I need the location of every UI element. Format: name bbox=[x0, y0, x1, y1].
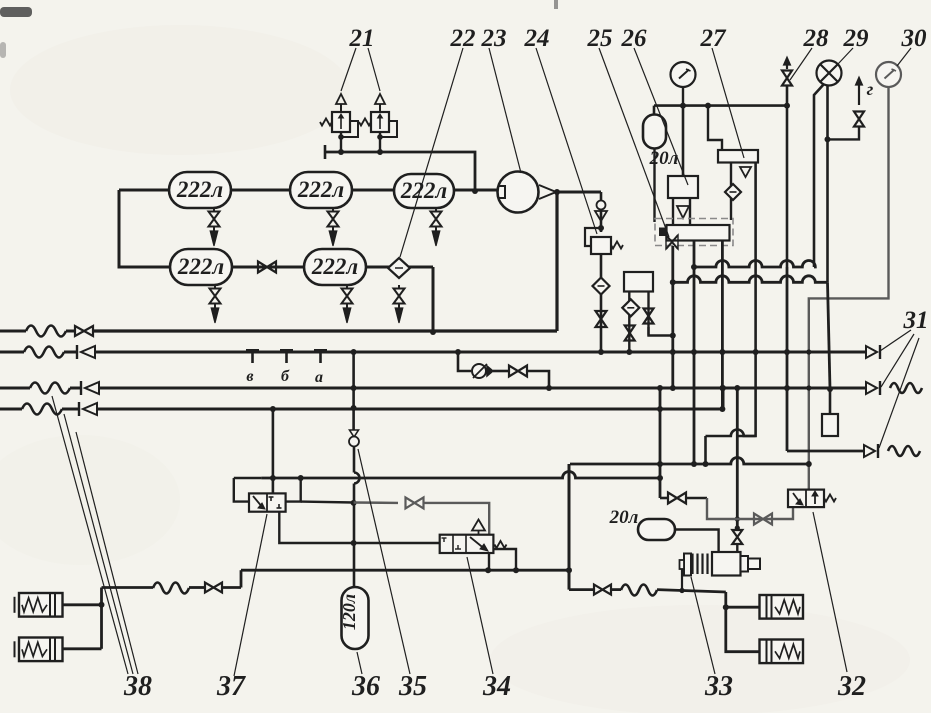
valve under small box right leg x=648 bbox=[647, 292, 649, 336]
pipe riser from check valve to trunk1 x=433 bbox=[432, 267, 435, 332]
reservoir 20l horizontal bbox=[638, 519, 675, 540]
vent g arrow and valve bbox=[828, 126, 860, 139]
relay unit 33 bbox=[712, 552, 741, 576]
pipe gauge header y=105.6 bbox=[654, 104, 787, 107]
trunk line 2 brake main y=352 bbox=[0, 351, 24, 354]
valve between row2 reservoirs bbox=[258, 262, 276, 273]
drain valve under A2 bbox=[332, 208, 334, 212]
pipe gauge29 down x=827.5 bbox=[826, 86, 829, 283]
wire regulator output line y=152 bbox=[325, 152, 475, 191]
leader 33 bbox=[691, 577, 715, 674]
reservoir 222l A1 bbox=[169, 172, 231, 208]
svg-text:120л: 120л bbox=[339, 594, 359, 630]
leader 36 bbox=[357, 652, 362, 674]
svg-text:23: 23 bbox=[481, 25, 507, 52]
pipe 20l to unit 33 bbox=[675, 530, 719, 553]
gray line y=502.5 valve37 to unit34 bbox=[301, 500, 354, 503]
pipe y=590 right with valve and hose bbox=[569, 588, 594, 591]
release valve 35 bbox=[350, 430, 359, 437]
pipe right cylinders riser bbox=[726, 592, 760, 652]
leader 31a bbox=[880, 330, 911, 351]
gray line y=519 to valve 32 bottom bbox=[707, 498, 793, 519]
electro valve 32 bbox=[788, 490, 824, 508]
bus line 2 y=282.3 with hops bbox=[673, 276, 828, 282]
pipe gauge29 elbow to bus1 bbox=[814, 84, 824, 267]
svg-text:28: 28 bbox=[803, 25, 830, 52]
check valve under small box left leg x=629 bbox=[628, 292, 630, 353]
svg-text:38: 38 bbox=[123, 671, 152, 702]
valve37 right loop bbox=[286, 478, 301, 502]
svg-text:27: 27 bbox=[700, 25, 728, 52]
svg-text:в: в bbox=[246, 368, 253, 385]
vent triangle under box 26 bbox=[677, 206, 689, 218]
pipe compressor outlet to riser bbox=[554, 191, 601, 194]
leader 21 left bbox=[341, 48, 356, 91]
vertical x=754 from valve 27 bbox=[737, 262, 755, 436]
vent triangle above regulator 21-2 bbox=[379, 104, 381, 112]
vertical x=723 trunk4 end up to trunk3 bbox=[722, 388, 725, 409]
check valve diamond below regulator 24 bbox=[593, 278, 610, 295]
leader 26 bbox=[634, 48, 688, 185]
tap v on trunk2 bbox=[246, 349, 259, 353]
compressor circle 23 bbox=[498, 172, 539, 213]
bus line y=464 bbox=[570, 458, 809, 464]
pipe to terminal y=451 bbox=[787, 450, 864, 453]
vertical from valve25 handle x=672.8 bbox=[671, 246, 674, 388]
tap a on trunk2 bbox=[314, 349, 327, 353]
bus line 1 y=267 with hops bbox=[694, 261, 815, 268]
valve34 bottom connections bbox=[488, 553, 490, 570]
valve 25 left fitting bbox=[659, 228, 666, 237]
drain valve under B1 bbox=[214, 285, 216, 289]
leader 27 bbox=[712, 48, 744, 158]
leaders 38 bbox=[52, 396, 128, 674]
leader 31c bbox=[879, 338, 919, 448]
driver brake valve 25 body bbox=[667, 225, 730, 241]
leader 30 bbox=[897, 48, 911, 66]
brake cylinder right 1 bbox=[760, 595, 804, 619]
vertical x=353 hop over valve37 line bbox=[354, 473, 360, 484]
terminal end trunk3 bbox=[866, 382, 877, 394]
valve above unit 33 bbox=[735, 525, 740, 530]
trunk line 1 feed main y=331 bbox=[0, 330, 26, 333]
vertical x=737 trunk3 down to unit 33 bbox=[734, 385, 740, 391]
valve box 26 bbox=[682, 106, 685, 176]
brake cylinder left 1 bbox=[19, 593, 63, 617]
leader 24 bbox=[536, 48, 597, 234]
svg-text:29: 29 bbox=[843, 25, 870, 52]
safety valve 28 arrow and valve bbox=[786, 61, 788, 69]
gauge manometer above 26 bbox=[671, 62, 696, 87]
pipe main riser x=557 to trunk1 bbox=[555, 192, 558, 331]
svg-text:222л: 222л bbox=[177, 254, 225, 279]
trunk line 3 y=388 bbox=[0, 387, 30, 390]
svg-text:31: 31 bbox=[903, 307, 929, 334]
leader 21 right bbox=[368, 48, 380, 91]
trunk line 4 y=409 bbox=[0, 408, 22, 411]
pipe y=587.5 with hose and valve bbox=[102, 586, 154, 589]
compressor outlet cone bbox=[539, 185, 556, 199]
check valve after compressor bbox=[600, 192, 603, 232]
stub reservoir under trunk3 bbox=[829, 389, 832, 414]
equalizing reservoir feed small box bbox=[624, 272, 653, 292]
pipe trunk4 to valve37 x=272.9 bbox=[270, 406, 276, 412]
vertical x=787 down to lower terminal bbox=[786, 267, 789, 451]
leader 32 bbox=[813, 512, 847, 672]
leader 29 bbox=[838, 48, 853, 64]
svg-text:г: г bbox=[867, 79, 874, 99]
valve37 top header y=478 bbox=[234, 477, 262, 480]
svg-text:35: 35 bbox=[398, 671, 427, 702]
valve box 27 bbox=[708, 106, 722, 150]
line y=479 from valve37 junction to x=660 bbox=[261, 472, 660, 478]
valve37 left loop bbox=[234, 478, 249, 502]
vertical jog x=241 bbox=[240, 570, 243, 587]
pipe row2 y=267 bbox=[119, 266, 433, 269]
svg-text:21: 21 bbox=[349, 25, 375, 52]
brake valve 34 body bbox=[440, 535, 494, 553]
pipe header left end down to 20l tank bbox=[653, 106, 656, 117]
compressor inlet bracket bbox=[498, 186, 505, 198]
reservoir 120l item 36 bbox=[342, 587, 369, 649]
tap b on trunk2 bbox=[280, 349, 293, 353]
brake cylinder right 2 bbox=[760, 640, 804, 664]
vertical x=660 trunk3 down to valve line 498 bbox=[659, 388, 662, 498]
gauge 30 light bbox=[876, 62, 901, 87]
pipes to left cylinders bbox=[63, 603, 102, 606]
svg-text:222л: 222л bbox=[176, 177, 224, 202]
vertical from valve25 body x=722.4 bbox=[721, 241, 724, 410]
check valve 22 diamond bbox=[388, 258, 410, 278]
svg-text:26: 26 bbox=[621, 25, 648, 52]
brake cylinder left 2 bbox=[19, 638, 63, 662]
vent triangle above regulator 21-1 bbox=[340, 104, 342, 112]
line y=498 with valve to x=707 bbox=[660, 497, 668, 500]
svg-text:222л: 222л bbox=[311, 254, 359, 279]
pressure regulator 21-1 bbox=[340, 132, 342, 152]
leader 34 bbox=[467, 557, 493, 674]
drain valve under check valve 22 bbox=[398, 285, 400, 289]
terminal end trunk2 bbox=[866, 346, 877, 358]
svg-text:33: 33 bbox=[704, 671, 733, 702]
line y=543 to unit34 bbox=[354, 542, 440, 544]
drain valve under A3 bbox=[435, 208, 437, 212]
valve37 bottom leg bbox=[279, 512, 353, 543]
triangle and check valve under 27 left leg bbox=[730, 163, 732, 221]
vent triangle on 34 bbox=[478, 531, 480, 535]
vertical feed x=353 trunk2 to reservoir 120l bbox=[351, 349, 357, 355]
pipe left loop bbox=[119, 190, 170, 267]
valve 37 body bbox=[249, 493, 286, 511]
reservoir 222l B2 bbox=[304, 249, 366, 285]
leader 25 bbox=[599, 48, 669, 237]
drain valve under B2 bbox=[346, 285, 348, 289]
svg-text:а: а bbox=[315, 369, 323, 386]
vertical x=827.5 bus2 end to trunk3 and stub bbox=[828, 282, 831, 389]
svg-text:б: б bbox=[281, 368, 290, 385]
leader 37 bbox=[234, 514, 267, 676]
bypass branch with check valve between trunk2 trunk3 bbox=[455, 349, 461, 355]
pressure regulator 24 bypass loop bbox=[585, 228, 601, 246]
pipe brake cylinders left feed y=570 bbox=[241, 569, 568, 572]
gauge 29 with cross bbox=[817, 61, 842, 86]
pressure regulator 24 bbox=[591, 237, 611, 254]
valve 25 handle cross valve bbox=[666, 235, 678, 249]
vertical x=705.5 to bus464 bbox=[704, 436, 707, 464]
vertical from valve25 body x=694 bbox=[693, 241, 696, 465]
gray crossing dots bbox=[806, 349, 811, 354]
drain valve under A1 bbox=[213, 208, 215, 212]
reservoir 222l A3 bbox=[394, 174, 454, 208]
leader 22 bbox=[400, 48, 463, 257]
svg-text:34: 34 bbox=[482, 671, 511, 702]
horizontal y=436 link bbox=[706, 430, 756, 436]
reservoir 222l A2 bbox=[290, 172, 352, 208]
leader 31b bbox=[881, 334, 914, 387]
reservoir 20l vertical bbox=[643, 115, 666, 149]
svg-text:37: 37 bbox=[216, 671, 246, 702]
pipe row1 reservoirs y=190 bbox=[119, 189, 498, 192]
svg-text:222л: 222л bbox=[297, 177, 345, 202]
paper background smudge top-left bbox=[0, 7, 32, 17]
leader 35 bbox=[358, 449, 410, 674]
svg-text:20л: 20л bbox=[609, 507, 639, 528]
shutoff valve below regulator 24 bbox=[596, 311, 607, 327]
svg-text:222л: 222л bbox=[400, 178, 448, 203]
pressure regulator 21-2 bbox=[379, 132, 381, 152]
reservoir 222l B1 bbox=[170, 249, 232, 285]
leader 28 bbox=[790, 48, 812, 80]
svg-text:36: 36 bbox=[351, 671, 380, 702]
svg-text:30: 30 bbox=[901, 25, 928, 52]
right leg from 27 down x=754 bbox=[754, 163, 757, 263]
driver brake valve 25 dashed enclosure bbox=[655, 219, 733, 246]
leader 23 bbox=[489, 48, 521, 173]
svg-text:32: 32 bbox=[837, 671, 866, 702]
pipe gauge30 long gray line down to valve 32 bbox=[809, 87, 889, 490]
big vertical x=569 bbox=[568, 464, 571, 590]
